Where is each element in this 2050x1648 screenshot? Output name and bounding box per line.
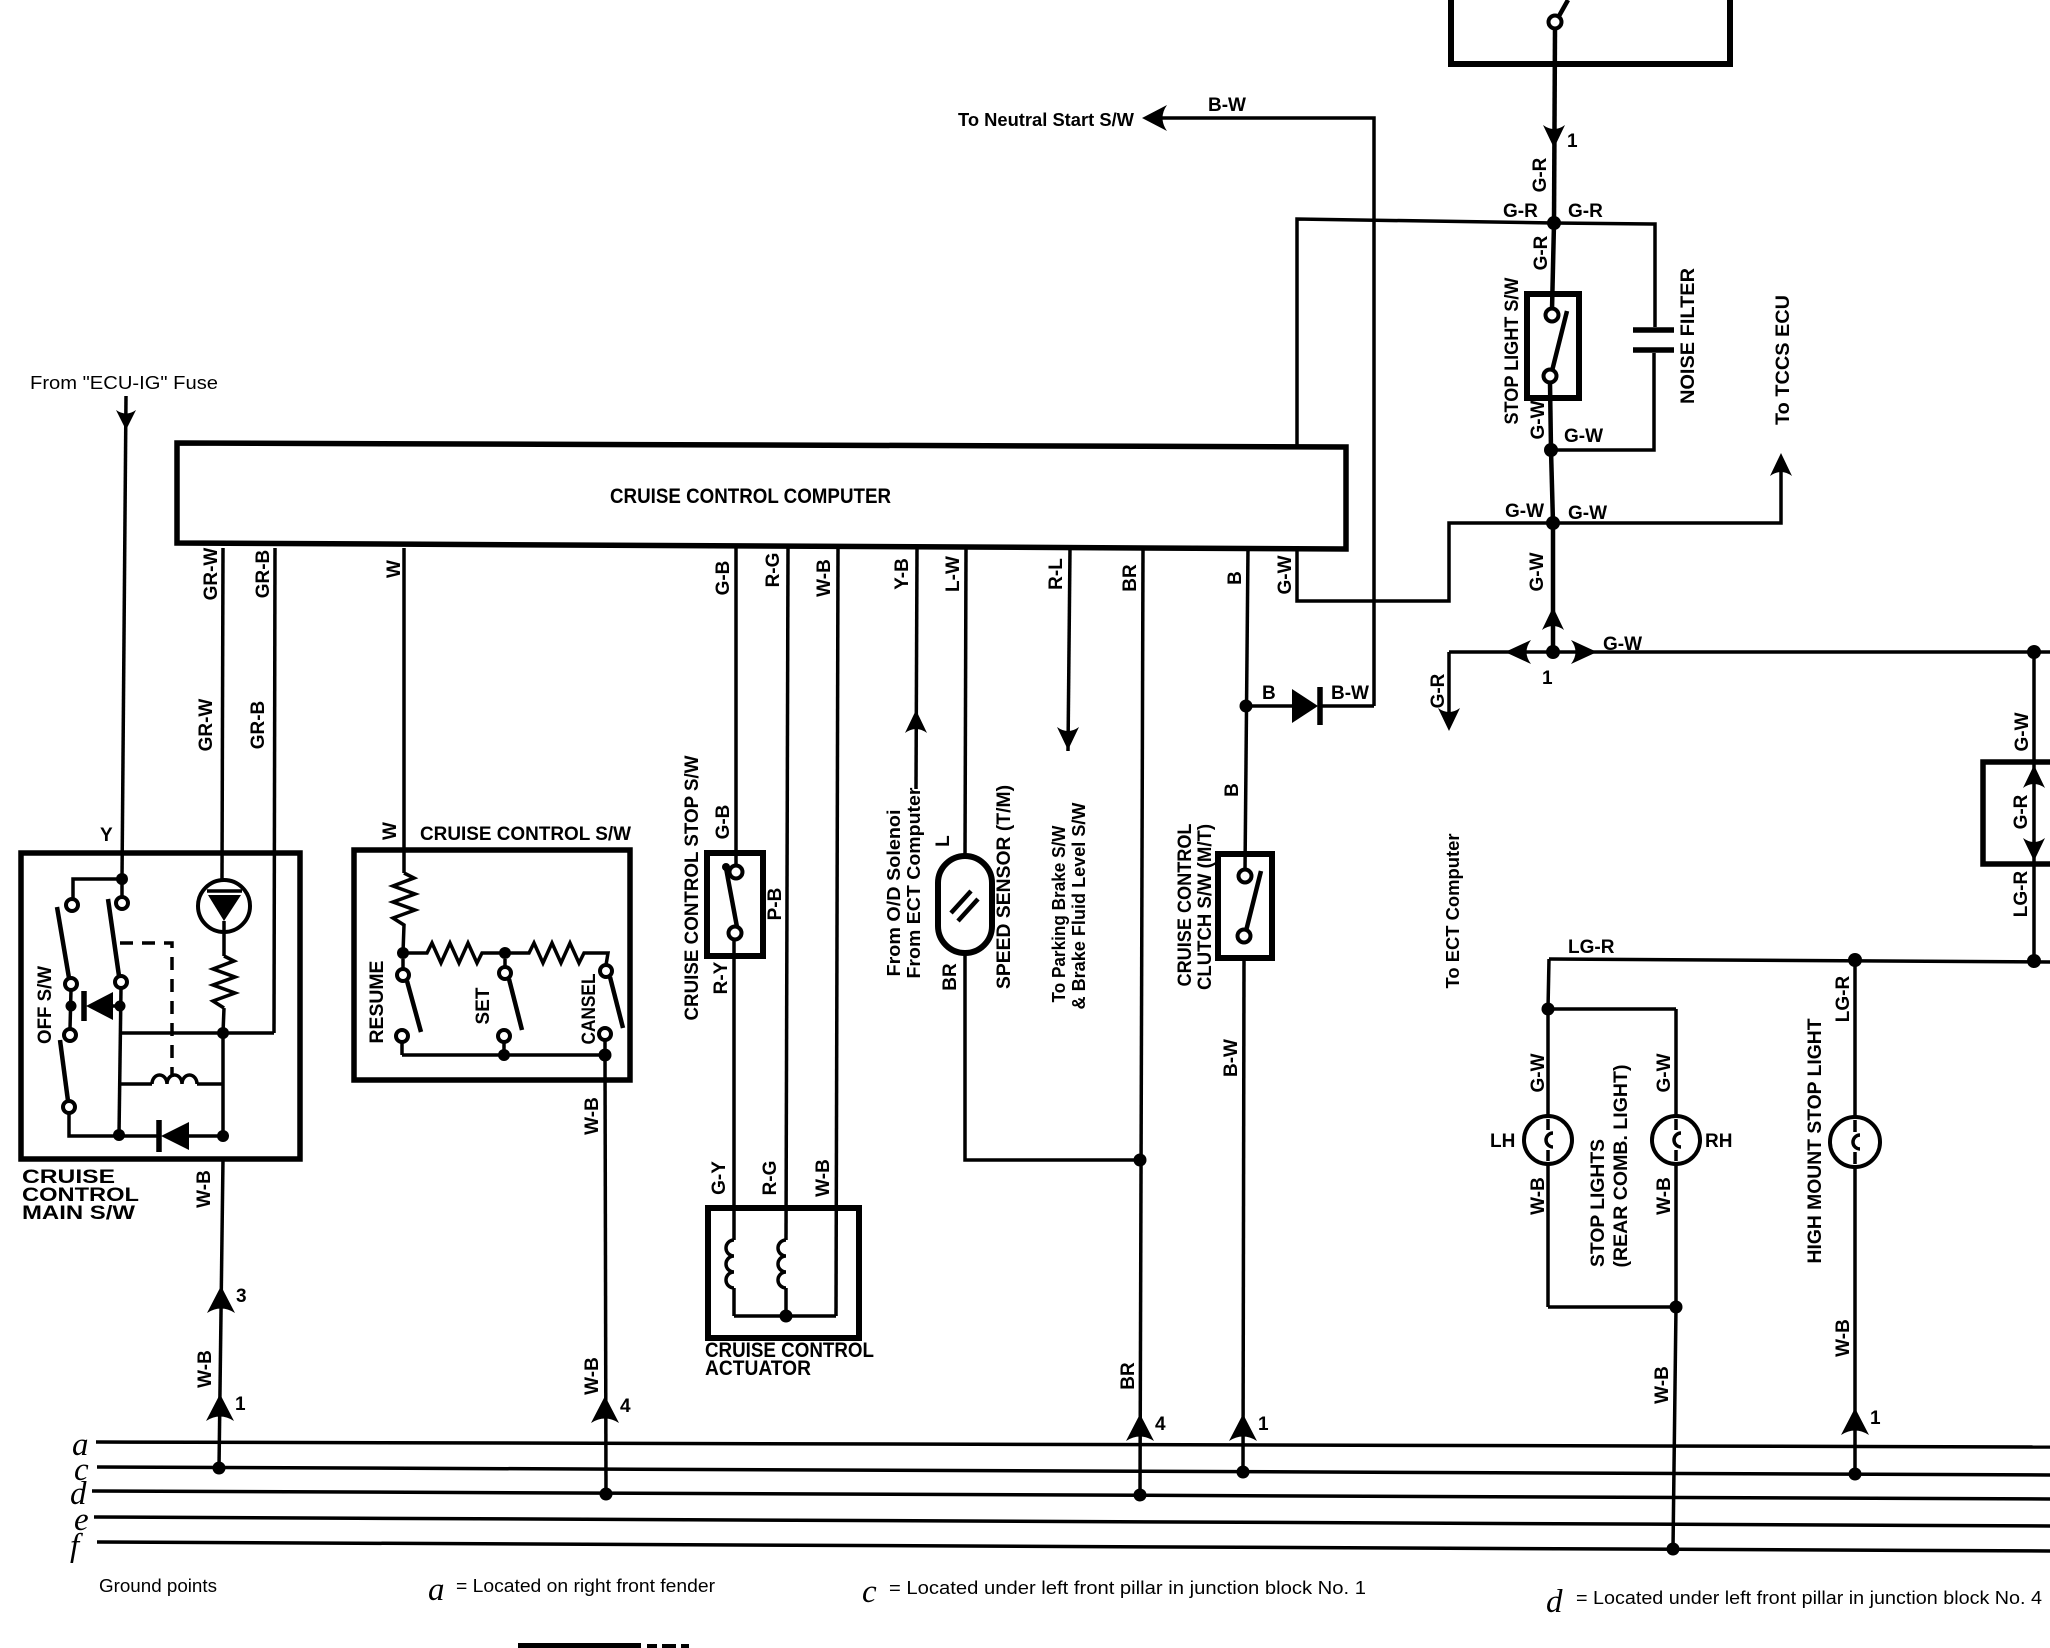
- svg-text:RH: RH: [1705, 1131, 1732, 1152]
- ground line a: [96, 1442, 2050, 1447]
- svg-text:From O/D Solenoi: From O/D Solenoi: [884, 810, 904, 977]
- label f: [70, 1528, 83, 1564]
- arrow down to ECT computer: [1438, 708, 1460, 731]
- svg-text:Ground points: Ground points: [99, 1576, 217, 1596]
- node G-W (noise filter junction): [1544, 443, 1558, 457]
- wire G-W node down to G-W distribution junction: [1551, 450, 1553, 523]
- wire from noise filter to G-W node: [1551, 353, 1654, 450]
- label R-G at computer: [763, 553, 784, 588]
- clutch switch contacts and blade: [1238, 870, 1262, 943]
- wire W-B from RH bulb to bottom bus: [1674, 1163, 1678, 1307]
- node set bottom: [498, 1049, 510, 1061]
- label CRUISE CONTROL ACTUATOR: [705, 1339, 874, 1380]
- label W-B at actuator: [813, 1159, 834, 1197]
- label BR at computer: [1120, 564, 1141, 592]
- svg-text:G-Y: G-Y: [709, 1161, 730, 1195]
- node on ground line d (cruise switch): [600, 1488, 613, 1501]
- diode B to B-W: [1292, 687, 1320, 725]
- svg-text:SET: SET: [473, 987, 494, 1024]
- ground line e: [94, 1517, 2050, 1526]
- wire G-R to ECT computer: [1447, 652, 1451, 714]
- label From ECT Computer: [904, 788, 924, 979]
- svg-text:1: 1: [1542, 668, 1553, 689]
- svg-text:1: 1: [1870, 1408, 1881, 1429]
- wire bottom bus cruise switch: [402, 1053, 605, 1057]
- node diode D1 right: [115, 1001, 126, 1012]
- label G-W right of node: [1564, 426, 1603, 447]
- svg-text:R-G: R-G: [763, 553, 784, 588]
- resume switch: [396, 959, 421, 1055]
- svg-text:3: 3: [236, 1286, 247, 1307]
- node G-R junction: [1547, 216, 1561, 230]
- svg-text:OFF S/W: OFF S/W: [35, 966, 56, 1044]
- indicator lamp LED in main switch: [198, 880, 250, 956]
- label G-W above connector line: [1603, 634, 1642, 655]
- cruise control stop switch box: [707, 853, 763, 956]
- label R-G at actuator: [760, 1161, 781, 1196]
- svg-text:CRUISE CONTROL COMPUTER: CRUISE CONTROL COMPUTER: [610, 485, 891, 508]
- svg-text:STOP LIGHT S/W: STOP LIGHT S/W: [1502, 277, 1523, 424]
- wire from ECU-IG fuse: [122, 396, 126, 879]
- svg-text:B: B: [1222, 783, 1243, 797]
- node on ground line c (clutch switch): [1237, 1466, 1250, 1479]
- label CRUISE CONTROL S/W: [420, 824, 631, 845]
- label G-R (right of junction): [1568, 201, 1603, 222]
- label G-W right of junction: [1568, 503, 1607, 524]
- svg-text:RESUME: RESUME: [367, 961, 388, 1044]
- node on ground line d (BR): [1134, 1489, 1147, 1502]
- label Ground points: [99, 1576, 217, 1596]
- svg-text:W-B: W-B: [814, 559, 835, 597]
- wire W-B from LH bulb to bottom bus: [1546, 1163, 1550, 1307]
- svg-text:STOP LIGHTS: STOP LIGHTS: [1588, 1139, 1609, 1267]
- label e: [74, 1502, 89, 1538]
- wire stop switch to actuator: [732, 940, 736, 1240]
- wire G-W left arm to computer G-W pin: [1297, 523, 1553, 601]
- node resume junction: [397, 947, 409, 959]
- capacitor noise filter: [1633, 330, 1674, 350]
- svg-text:BR: BR: [1118, 1362, 1139, 1390]
- resistor horizontal 1: [403, 943, 505, 963]
- label c: [74, 1452, 89, 1488]
- speed sensor reed contacts: [951, 891, 978, 921]
- wire resistor to node: [223, 1008, 224, 1033]
- svg-text:G-W: G-W: [1654, 1053, 1675, 1092]
- svg-text:LG-R: LG-R: [2011, 871, 2032, 918]
- label B at computer: [1225, 571, 1246, 585]
- ground arrow 4 cruise switch: [591, 1396, 631, 1423]
- node on ground line c (high mount): [1849, 1468, 1862, 1481]
- label NOISE FILTER: [1678, 268, 1699, 404]
- label GR-B at main switch: [248, 701, 269, 750]
- label G-B at stop switch: [713, 805, 734, 840]
- node set junction: [499, 947, 511, 959]
- wire actuator bottom bus: [734, 1314, 836, 1318]
- arrow down R-L: [1057, 727, 1079, 750]
- node Y junction in main switch: [116, 873, 128, 885]
- wire bottom bus main switch: [69, 1113, 120, 1136]
- page footer bar: [518, 1643, 689, 1648]
- label Y-B at computer: [892, 558, 913, 590]
- label W-B cruise switch lower: [582, 1357, 603, 1395]
- dashed mechanical link: [120, 943, 172, 1077]
- label GR-B at computer: [253, 550, 274, 599]
- label W-B main switch upper: [194, 1170, 215, 1208]
- node right end of connector line: [2027, 645, 2041, 659]
- node bottom bus right: [217, 1130, 229, 1142]
- svg-text:W-B: W-B: [813, 1159, 834, 1197]
- wire right column of main switch: [119, 988, 121, 1135]
- wire LG-R horizontal: [1549, 959, 2050, 962]
- svg-text:1: 1: [1567, 131, 1578, 152]
- svg-text:a: a: [428, 1572, 445, 1608]
- wire Y-B pin from O/D solenoid: [916, 548, 917, 789]
- label G-B at computer: [713, 561, 734, 596]
- svg-text:G-R: G-R: [1428, 673, 1449, 708]
- actuator coil 1: [726, 1240, 734, 1316]
- node G-W distribution junction: [1546, 516, 1560, 530]
- label CANSEL: [579, 973, 600, 1044]
- label LG-R high mount: [1833, 976, 1854, 1023]
- ignition switch box (partial, top): [1451, 0, 1730, 64]
- label G-R (vertical, above stop light switch): [1531, 235, 1552, 270]
- diode D1 in main switch: [84, 991, 120, 1021]
- label B-W neutral start wire: [1208, 95, 1246, 116]
- svg-text:BR: BR: [1120, 564, 1141, 592]
- set switch: [498, 959, 522, 1055]
- wire coil to W-B column: [221, 1033, 225, 1136]
- svg-text:From ECT Computer: From ECT Computer: [904, 788, 924, 979]
- label W at switch: [380, 822, 401, 840]
- label SPEED SENSOR (T/M): [994, 785, 1015, 989]
- label & Brake Fluid Level S/W: [1069, 803, 1089, 1010]
- label GR-W at main switch: [196, 699, 217, 752]
- svg-text:L-W: L-W: [943, 556, 964, 592]
- svg-text:G-W: G-W: [1564, 426, 1603, 447]
- svg-text:To Parking Brake S/W: To Parking Brake S/W: [1049, 825, 1069, 1002]
- stop light switch box: [1527, 294, 1579, 398]
- label B at diode: [1262, 683, 1276, 704]
- svg-text:L: L: [933, 835, 954, 847]
- label GR-W at computer: [201, 548, 222, 601]
- svg-text:4: 4: [1155, 1414, 1166, 1435]
- label (REAR COMB. LIGHT): [1611, 1065, 1632, 1268]
- ground arrow 1 high mount: [1841, 1408, 1881, 1435]
- svg-text:P-B: P-B: [765, 888, 786, 921]
- wire G-W down right edge: [2032, 652, 2036, 961]
- node BR sensor junction: [1134, 1154, 1147, 1167]
- svg-text:1: 1: [235, 1394, 246, 1415]
- ground line f: [97, 1542, 2050, 1551]
- svg-text:To TCCS ECU: To TCCS ECU: [1773, 295, 1794, 425]
- label L at sensor: [933, 835, 954, 847]
- label W-B high mount: [1833, 1319, 1854, 1357]
- label G-W left of junction: [1505, 501, 1544, 522]
- label a: [72, 1427, 89, 1463]
- ground arrow 3 main switch: [207, 1286, 247, 1313]
- wire G-W to RH bulb: [1674, 1009, 1678, 1117]
- actuator coil 2: [778, 1240, 786, 1316]
- svg-text:LG-R: LG-R: [1568, 937, 1615, 958]
- node cansel bottom: [599, 1049, 612, 1062]
- bulb LH stop light: [1524, 1116, 1572, 1164]
- svg-text:W: W: [384, 560, 405, 578]
- wire W-B high mount to ground c: [1853, 1165, 1857, 1474]
- label CRUISE CONTROL MAIN S/W: [22, 1167, 139, 1224]
- wire BR from sensor to BR column: [965, 953, 1140, 1160]
- label CRUISE CONTROL COMPUTER: [610, 485, 891, 508]
- wire B pin to clutch switch: [1245, 548, 1248, 871]
- label W-B ground lead stop lights: [1652, 1366, 1673, 1404]
- node junction 1 on connector line: [1542, 645, 1560, 689]
- svg-text:B: B: [1225, 571, 1246, 585]
- stop light switch contacts and blade: [1544, 309, 1568, 383]
- svg-text:CRUISE CONTROL: CRUISE CONTROL: [1175, 823, 1196, 986]
- node on ground line c (main switch): [213, 1462, 226, 1475]
- wire left column mid: [70, 990, 71, 1029]
- wire B to diode: [1246, 704, 1292, 708]
- ground arrow 1 clutch switch: [1229, 1414, 1269, 1441]
- label LH: [1490, 1131, 1515, 1152]
- arrow to TCCS ECU: [1770, 453, 1792, 476]
- wire LG-R to high mount bulb: [1853, 960, 1857, 1118]
- svg-text:Y: Y: [100, 825, 113, 846]
- svg-text:Y-B: Y-B: [892, 558, 913, 590]
- label OFF S/W: [35, 966, 56, 1044]
- label W-B main switch lower: [195, 1350, 216, 1388]
- label LG-R below connector box: [2011, 871, 2032, 918]
- speed sensor body: [938, 856, 992, 953]
- wire W pin to cruise control switch: [402, 548, 406, 873]
- svg-text:CLUTCH S/W (M/T): CLUTCH S/W (M/T): [1195, 824, 1216, 990]
- cruise control switch box: [354, 850, 630, 1080]
- label BR at ground: [1118, 1362, 1139, 1390]
- svg-text:W-B: W-B: [1654, 1177, 1675, 1215]
- label RESUME: [367, 961, 388, 1044]
- wire BR pin to ground d: [1140, 548, 1143, 1495]
- connector arrow up on G-W wire: [1542, 607, 1564, 630]
- stop switch contacts and blade: [722, 863, 743, 940]
- wire LG-R down to stop lights: [1548, 959, 1549, 1009]
- wire diode to B-W riser: [1321, 704, 1374, 708]
- bulb RH stop light: [1652, 1116, 1700, 1164]
- wire G-W to LH bulb: [1546, 1009, 1550, 1117]
- svg-text:G-R: G-R: [1531, 235, 1552, 270]
- wire W-B stop lights to ground f: [1673, 1307, 1676, 1549]
- wire W-B main switch to ground c: [219, 1159, 223, 1468]
- svg-text:R-Y: R-Y: [711, 961, 732, 994]
- node bottom bus left: [113, 1129, 125, 1141]
- label G-W right edge: [2012, 712, 2033, 751]
- svg-text:LH: LH: [1490, 1131, 1515, 1152]
- node stop lights top junction: [1542, 1003, 1555, 1016]
- label STOP LIGHTS: [1588, 1139, 1609, 1267]
- ground line c: [97, 1467, 2050, 1475]
- wire stop lights top bus: [1548, 1007, 1676, 1011]
- svg-text:From "ECU-IG" Fuse: From "ECU-IG" Fuse: [30, 373, 218, 393]
- wire G-W right arm to TCCS ECU: [1553, 468, 1781, 523]
- label G-W below stop light switch: [1528, 400, 1549, 439]
- svg-text:G-R: G-R: [1503, 201, 1538, 222]
- svg-text:B-W: B-W: [1208, 95, 1246, 116]
- bulb high mount stop light: [1830, 1117, 1880, 1167]
- node stop lights bottom junction: [1670, 1301, 1683, 1314]
- label W at computer: [384, 560, 405, 578]
- svg-text:= Located on right front fende: = Located on right front fender: [456, 1576, 715, 1596]
- svg-text:NOISE FILTER: NOISE FILTER: [1678, 268, 1699, 404]
- legend c location: [862, 1574, 1366, 1610]
- label BR at sensor: [940, 963, 961, 991]
- label G-R (left of junction): [1503, 201, 1538, 222]
- label G-W at RH bulb: [1654, 1053, 1675, 1092]
- svg-text:W-B: W-B: [1652, 1366, 1673, 1404]
- label G-Y at actuator: [709, 1161, 730, 1195]
- label From O/D Solenoi: [884, 810, 904, 977]
- resistor horizontal 2: [505, 943, 608, 965]
- svg-text:G-W: G-W: [1275, 555, 1296, 594]
- svg-text:G-W: G-W: [1528, 400, 1549, 439]
- svg-text:GR-B: GR-B: [253, 550, 274, 599]
- svg-text:W-B: W-B: [1528, 1177, 1549, 1215]
- label HIGH MOUNT STOP LIGHT: [1805, 1018, 1826, 1263]
- svg-text:GR-W: GR-W: [201, 548, 222, 601]
- label Y: [100, 825, 113, 846]
- arrow from ECU-IG fuse: [116, 410, 136, 430]
- label RH: [1705, 1131, 1732, 1152]
- svg-text:CANSEL: CANSEL: [579, 973, 600, 1044]
- label R-L at computer: [1046, 558, 1067, 590]
- wire GR-B pin to main switch: [274, 548, 275, 1033]
- wire G-W down to connector line: [1551, 523, 1556, 652]
- node LG-R right: [2027, 954, 2041, 968]
- wire G-R horizontal to computer top pin: [1297, 219, 1554, 447]
- connector arrow 1 on G-R wire: [1543, 125, 1578, 152]
- label B-W at diode: [1331, 683, 1369, 704]
- label G-W (vertical, below distribution junction): [1527, 552, 1548, 591]
- wire B-W to neutral start switch: [1160, 118, 1374, 706]
- svg-text:W-B: W-B: [1833, 1319, 1854, 1357]
- svg-text:To ECT Computer: To ECT Computer: [1443, 834, 1463, 989]
- svg-text:R-G: R-G: [760, 1161, 781, 1196]
- svg-text:G-W: G-W: [1568, 503, 1607, 524]
- wire GR-W pin to main switch: [222, 548, 223, 880]
- node on ground line f: [1667, 1543, 1680, 1556]
- svg-text:1: 1: [1258, 1414, 1269, 1435]
- diode D2 in main switch: [119, 1120, 223, 1152]
- arrow up Y-B: [905, 710, 927, 733]
- off switch pole 3: [60, 1029, 76, 1113]
- cruise control actuator box: [708, 1208, 859, 1338]
- node resistor junction: [217, 1027, 229, 1039]
- label d: [70, 1476, 87, 1512]
- relay coil in main switch: [120, 1075, 223, 1084]
- wire B-W clutch switch to ground c: [1243, 958, 1244, 1472]
- svg-text:SPEED SENSOR (T/M): SPEED SENSOR (T/M): [994, 785, 1015, 989]
- wire to noise filter (top branch): [1554, 223, 1655, 327]
- svg-text:G-W: G-W: [1527, 552, 1548, 591]
- label STOP LIGHT S/W: [1502, 277, 1523, 424]
- wire main switch top bus: [73, 879, 122, 899]
- svg-text:W-B: W-B: [195, 1350, 216, 1388]
- wire R-L pin to parking brake switch: [1068, 548, 1070, 751]
- label G-W at computer pin: [1275, 555, 1296, 594]
- label CRUISE CONTROL STOP S/W: [682, 755, 703, 1020]
- label To TCCS ECU: [1773, 295, 1794, 425]
- cruise control computer box: [177, 443, 1346, 549]
- connector box right edge: [1983, 762, 2050, 864]
- wire R-G pin to actuator: [786, 548, 788, 1240]
- ground arrow 4 BR: [1126, 1414, 1166, 1441]
- wire stop light switch to G-W node: [1550, 383, 1551, 450]
- wire G-W horizontal connector line: [1449, 650, 2050, 654]
- label SET: [473, 987, 494, 1024]
- svg-text:To Neutral Start S/W: To Neutral Start S/W: [958, 110, 1134, 130]
- cruise control clutch switch box: [1218, 854, 1272, 958]
- svg-text:W-B: W-B: [194, 1170, 215, 1208]
- label To ECT Computer: [1443, 834, 1463, 989]
- svg-text:BR: BR: [940, 963, 961, 991]
- label G-W at LH bulb: [1528, 1053, 1549, 1092]
- cansel switch: [599, 965, 623, 1055]
- wire G-R into stop light switch: [1552, 223, 1554, 310]
- node diode D1 left: [66, 1001, 77, 1012]
- label R-Y below stop switch: [711, 961, 732, 994]
- svg-text:G-W: G-W: [1603, 634, 1642, 655]
- wire stop lights bottom bus: [1548, 1305, 1676, 1309]
- svg-text:G-W: G-W: [1528, 1053, 1549, 1092]
- svg-text:G-W: G-W: [2012, 712, 2033, 751]
- wire G-B pin to stop switch: [734, 548, 738, 866]
- svg-text:4: 4: [620, 1396, 631, 1417]
- svg-text:= Located under left front pil: = Located under left front pillar in jun…: [1576, 1588, 2042, 1608]
- label W-B at computer: [814, 559, 835, 597]
- resistor vertical in cruise switch: [393, 873, 415, 953]
- label CRUISE CONTROL CLUTCH S/W (M/T): [1175, 823, 1216, 990]
- label P-B: [765, 888, 786, 921]
- svg-text:c: c: [862, 1574, 877, 1610]
- svg-text:MAIN S/W: MAIN S/W: [22, 1203, 135, 1224]
- svg-text:W-B: W-B: [582, 1357, 603, 1395]
- svg-text:W-B: W-B: [582, 1097, 603, 1135]
- off switch pole 2: [108, 897, 128, 988]
- label W-B cruise switch upper: [582, 1097, 603, 1135]
- svg-text:GR-W: GR-W: [196, 699, 217, 752]
- label B-W clutch switch: [1221, 1039, 1242, 1077]
- svg-text:G-R: G-R: [2011, 794, 2032, 829]
- svg-text:G-R: G-R: [1568, 201, 1603, 222]
- label G-R in connector box: [2011, 794, 2032, 829]
- wire W-B cruise switch to ground d: [605, 1055, 606, 1494]
- wire L-W pin to speed sensor: [965, 548, 966, 858]
- resistor in main switch: [213, 956, 235, 1008]
- svg-text:G-B: G-B: [713, 805, 734, 840]
- wire to right contact: [120, 879, 124, 897]
- svg-text:= Located under left front pil: = Located under left front pillar in jun…: [889, 1578, 1366, 1598]
- svg-text:B-W: B-W: [1221, 1039, 1242, 1077]
- wire W-B pin to actuator: [836, 548, 838, 1316]
- connector arrow right: [1571, 640, 1597, 664]
- legend a location: [428, 1572, 715, 1608]
- ground line d: [92, 1491, 2050, 1499]
- label G-R (to ECT): [1428, 673, 1449, 708]
- svg-text:G-W: G-W: [1505, 501, 1544, 522]
- connector arrow up in box: [2023, 765, 2045, 788]
- svg-text:R-L: R-L: [1046, 558, 1067, 590]
- svg-text:LG-R: LG-R: [1833, 976, 1854, 1023]
- label LG-R above line: [1568, 937, 1615, 958]
- svg-text:W: W: [380, 822, 401, 840]
- off switch pole 1: [57, 899, 78, 990]
